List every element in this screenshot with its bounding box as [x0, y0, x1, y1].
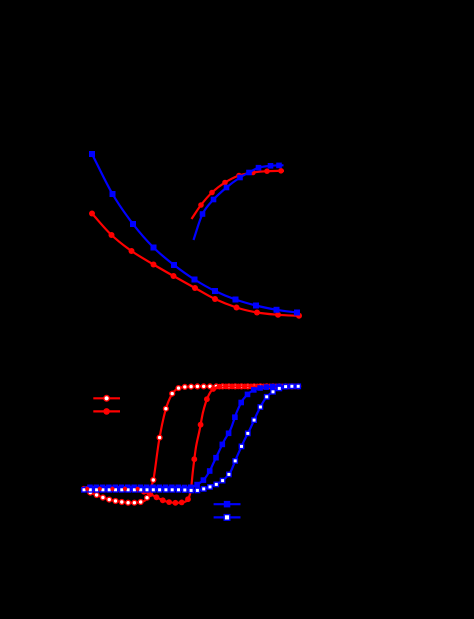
legend upper-left: red filled-circle entry [93, 408, 120, 415]
top panel: red decay curve with circle markers [89, 211, 302, 319]
top panel: red rising curve with circle markers [192, 168, 285, 219]
bottom panel: red sigmoid 1 (open circles, white fill) [82, 384, 301, 505]
legend upper-left: red open-circle entry [93, 396, 120, 402]
legend lower-right: blue open-square entry [214, 515, 241, 521]
legend lower-right: blue filled-square entry [214, 501, 241, 508]
baseline junction: red circle markers interleaved on flat row [85, 487, 140, 491]
top panel: blue rising curve with square markers [194, 163, 284, 240]
bottom panel: red sigmoid 2 (filled circles) [84, 384, 300, 506]
bottom panel: blue sigmoid 3 (filled squares) [84, 384, 301, 491]
bottom panel: blue sigmoid 4 (open squares, white fill) [82, 384, 301, 493]
top panel: blue decay curve with square markers [89, 151, 300, 316]
